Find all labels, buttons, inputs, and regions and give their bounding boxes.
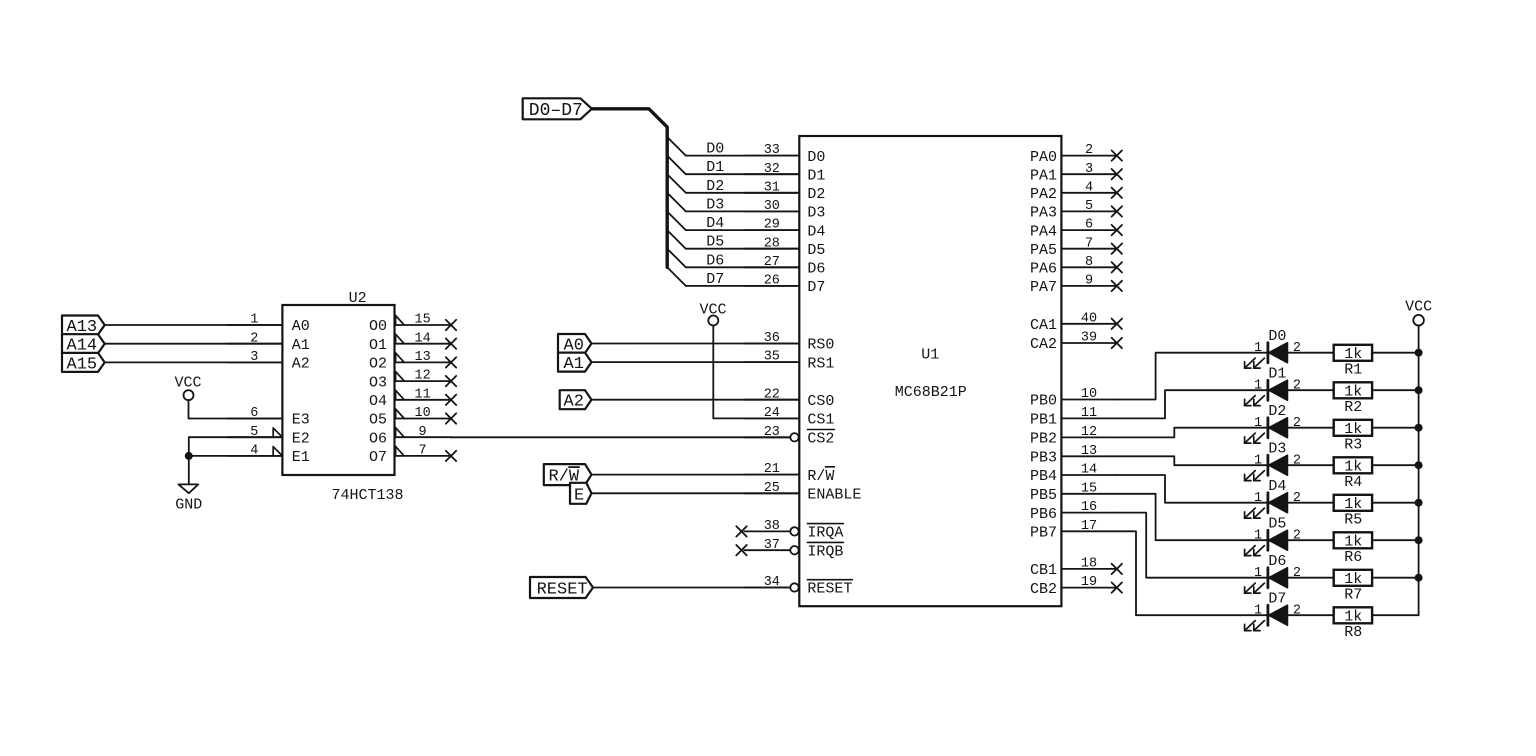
- U2 pin 12 (O3): [369, 369, 456, 392]
- svg-text:IRQA: IRQA: [807, 525, 843, 542]
- svg-text:1: 1: [1254, 528, 1262, 543]
- svg-text:13: 13: [1081, 444, 1097, 459]
- wire D2 with net label: [686, 178, 800, 195]
- svg-text:D3: D3: [1268, 441, 1286, 458]
- svg-text:O1: O1: [369, 337, 387, 354]
- global label A1: [558, 353, 592, 375]
- resistor R8 1k: [1288, 607, 1419, 641]
- svg-text:VCC: VCC: [1405, 299, 1432, 316]
- svg-text:O0: O0: [369, 318, 387, 335]
- wire D6 with net label: [686, 252, 800, 269]
- svg-text:37: 37: [764, 538, 780, 553]
- global label RESET: [530, 577, 593, 600]
- U2 pin 7 (O7): [369, 444, 456, 467]
- svg-text:9: 9: [419, 425, 427, 440]
- U1 pin 30 (D3): [744, 199, 825, 222]
- wire PB0 to LED D0: [1116, 353, 1268, 400]
- svg-text:D2: D2: [807, 186, 825, 203]
- U2 pin 11 (O4): [369, 387, 456, 410]
- junction VCC rail / R4: [1415, 461, 1423, 469]
- svg-text:E: E: [574, 486, 584, 505]
- wire D3 with net label: [686, 196, 800, 213]
- svg-text:PA0: PA0: [1030, 149, 1057, 166]
- svg-text:12: 12: [1081, 425, 1097, 440]
- svg-text:PA3: PA3: [1030, 205, 1057, 222]
- svg-text:RS1: RS1: [807, 355, 834, 372]
- svg-text:PB2: PB2: [1030, 431, 1057, 448]
- U1 pin 40 (CA1): [1030, 311, 1122, 334]
- U1 pin 15 (PB5): [1030, 481, 1116, 504]
- U1 pin 32 (D1): [744, 162, 825, 185]
- U1 pin 5 (PA3): [1030, 199, 1122, 222]
- svg-text:U2: U2: [349, 290, 367, 307]
- global label A14: [62, 334, 105, 356]
- svg-text:4: 4: [1085, 180, 1093, 195]
- bus D0-D7: [592, 109, 667, 267]
- svg-text:PA6: PA6: [1030, 261, 1057, 278]
- svg-text:U1: U1: [921, 347, 939, 364]
- wire R/W to U1 pin 21: [592, 474, 800, 476]
- wire A15 to U2 A2: [105, 361, 283, 363]
- svg-text:13: 13: [414, 350, 430, 365]
- svg-text:RESET: RESET: [537, 581, 588, 600]
- svg-text:PB3: PB3: [1030, 450, 1057, 467]
- wire PB6 to LED D6: [1116, 513, 1268, 578]
- U1 pin 21 (R/W): [744, 462, 834, 485]
- U1 pin 13 (PB3): [1030, 444, 1116, 467]
- U2 pin 4 (E1): [227, 444, 309, 467]
- svg-text:D5: D5: [807, 242, 825, 259]
- U1 value MC68B21P: [895, 384, 967, 401]
- VCC rail wire: [1418, 326, 1420, 616]
- svg-text:D1: D1: [1268, 366, 1286, 383]
- svg-text:1: 1: [1254, 453, 1262, 468]
- U1 pin 39 (CA2): [1030, 331, 1122, 354]
- U2 pin 14 (O1): [369, 331, 456, 354]
- svg-text:A0: A0: [292, 318, 310, 335]
- U2 pin 2 (A1): [227, 331, 309, 354]
- svg-text:16: 16: [1081, 500, 1097, 515]
- svg-text:14: 14: [414, 331, 430, 346]
- wire U2 O6 to U1 CS2: [451, 436, 790, 438]
- U1 pin 29 (D4): [744, 218, 825, 241]
- wire A14 to U2 A1: [105, 343, 283, 345]
- svg-text:D2: D2: [706, 178, 724, 195]
- svg-text:2: 2: [1293, 603, 1301, 618]
- svg-text:1: 1: [1254, 341, 1262, 356]
- svg-text:D6: D6: [1268, 553, 1286, 570]
- U2 pin 3 (A2): [227, 350, 309, 373]
- svg-text:D6: D6: [706, 252, 724, 269]
- wire PB1 to LED D1: [1116, 390, 1268, 418]
- U1 pin 24 (CS1): [744, 406, 834, 429]
- wire D4 with net label: [686, 215, 800, 232]
- svg-text:A1: A1: [564, 355, 584, 374]
- svg-text:2: 2: [1293, 528, 1301, 543]
- junction VCC rail / R2: [1415, 386, 1423, 394]
- LED D7: [1245, 591, 1301, 631]
- svg-text:15: 15: [1081, 481, 1097, 496]
- wire VCC to U1 CS1: [713, 326, 799, 419]
- U1 pin 12 (PB2): [1030, 425, 1116, 448]
- svg-text:9: 9: [1085, 274, 1093, 289]
- svg-text:7: 7: [1085, 236, 1093, 251]
- power symbol VCC (U2): [174, 375, 201, 401]
- resistor R5 1k: [1288, 495, 1419, 529]
- U2 pin 6 (E3): [227, 406, 309, 429]
- wire PB5 to LED D5: [1116, 494, 1268, 540]
- svg-text:1: 1: [1254, 416, 1262, 431]
- resistor R6 1k: [1288, 532, 1419, 566]
- svg-text:MC68B21P: MC68B21P: [895, 384, 967, 401]
- wire GND to U2 E1: [189, 455, 283, 457]
- bus entry D5: [667, 230, 686, 249]
- svg-text:D1: D1: [706, 159, 724, 176]
- U1 pin 28 (D5): [744, 236, 825, 259]
- svg-text:CB2: CB2: [1030, 581, 1057, 598]
- svg-text:40: 40: [1081, 311, 1097, 326]
- svg-text:1: 1: [1254, 378, 1262, 393]
- junction VCC rail / R3: [1415, 424, 1423, 432]
- svg-text:CS2: CS2: [807, 431, 834, 448]
- U2 value 74HCT138: [331, 487, 403, 504]
- svg-text:2: 2: [1293, 566, 1301, 581]
- wire D1 with net label: [686, 159, 800, 176]
- resistor R1 1k: [1288, 345, 1419, 379]
- bus entry D7: [667, 267, 686, 286]
- svg-text:D5: D5: [1268, 516, 1286, 533]
- U1 pin 4 (PA2): [1030, 180, 1122, 203]
- svg-text:A15: A15: [67, 355, 98, 374]
- svg-text:R2: R2: [1344, 399, 1362, 416]
- U2 pin 15 (O0): [369, 313, 456, 336]
- U1 pin 25 (ENABLE): [744, 481, 861, 504]
- U1 pin 18 (CB1): [1030, 557, 1122, 580]
- LED D5: [1245, 516, 1301, 556]
- svg-text:2: 2: [1293, 341, 1301, 356]
- svg-text:E3: E3: [292, 412, 310, 429]
- U1 pin 6 (PA4): [1030, 218, 1122, 241]
- junction VCC rail / R6: [1415, 536, 1423, 544]
- U2 pin 9 (O6): [369, 425, 451, 448]
- U1 pin 8 (PA6): [1030, 255, 1122, 278]
- wire VCC to U2 E3: [189, 400, 283, 418]
- svg-text:VCC: VCC: [699, 302, 726, 319]
- wire PB2 to LED D2: [1116, 428, 1268, 438]
- wire GND to U2 E2: [189, 437, 283, 484]
- U1 pin 2 (PA0): [1030, 143, 1122, 166]
- wire D0 with net label: [686, 141, 800, 158]
- svg-text:10: 10: [1081, 387, 1097, 402]
- svg-text:IRQB: IRQB: [807, 543, 843, 560]
- svg-text:8: 8: [1085, 255, 1093, 270]
- wire A2 to U1 CS0: [592, 399, 800, 401]
- svg-text:38: 38: [764, 519, 780, 534]
- svg-text:1: 1: [1254, 566, 1262, 581]
- svg-text:PB5: PB5: [1030, 487, 1057, 504]
- U1 pin 37 (IRQB): [736, 538, 843, 561]
- svg-text:D7: D7: [807, 279, 825, 296]
- U1 pin 26 (D7): [744, 274, 825, 297]
- svg-text:D5: D5: [706, 234, 724, 251]
- resistor R2 1k: [1288, 382, 1419, 416]
- svg-text:D4: D4: [1268, 478, 1286, 495]
- global label R/W: [544, 464, 592, 487]
- svg-text:2: 2: [1085, 143, 1093, 158]
- global label A2: [560, 390, 592, 412]
- U1 pin 34 (RESET): [744, 575, 852, 598]
- svg-text:6: 6: [1085, 218, 1093, 233]
- svg-text:VCC: VCC: [174, 375, 201, 392]
- svg-text:PB1: PB1: [1030, 412, 1057, 429]
- svg-text:GND: GND: [175, 496, 202, 513]
- wire E to U1 ENABLE: [592, 492, 800, 494]
- svg-text:A2: A2: [564, 393, 584, 412]
- wire PB3 to LED D3: [1116, 456, 1268, 465]
- IC U2 74HCT138 body: [282, 305, 394, 475]
- svg-text:D7: D7: [1268, 591, 1286, 608]
- svg-text:O2: O2: [369, 356, 387, 373]
- U1 pin 27 (D6): [744, 255, 825, 278]
- svg-text:O3: O3: [369, 374, 387, 391]
- svg-text:CA1: CA1: [1030, 317, 1057, 334]
- svg-text:19: 19: [1081, 575, 1097, 590]
- svg-text:18: 18: [1081, 557, 1097, 572]
- svg-text:E2: E2: [292, 430, 310, 447]
- resistor R7 1k: [1288, 570, 1419, 604]
- junction VCC rail / R1: [1415, 349, 1423, 357]
- svg-text:5: 5: [1085, 199, 1093, 214]
- svg-text:2: 2: [1293, 453, 1301, 468]
- LED D3: [1245, 441, 1301, 481]
- svg-text:11: 11: [1081, 406, 1097, 421]
- svg-text:R5: R5: [1344, 511, 1362, 528]
- U1 reference designator: [921, 347, 939, 364]
- U1 pin 9 (PA7): [1030, 274, 1122, 297]
- wire D7 with net label: [686, 271, 800, 288]
- svg-text:PA1: PA1: [1030, 167, 1057, 184]
- svg-text:R/W: R/W: [807, 468, 834, 485]
- global label A15: [62, 353, 105, 375]
- svg-text:CS0: CS0: [807, 393, 834, 410]
- svg-text:39: 39: [1081, 331, 1097, 346]
- svg-text:PB7: PB7: [1030, 525, 1057, 542]
- U1 pin 14 (PB4): [1030, 463, 1116, 486]
- wire PB7 to LED D7: [1116, 531, 1268, 615]
- U2 pin 5 (E2): [227, 425, 309, 448]
- svg-text:D0: D0: [1268, 328, 1286, 345]
- svg-text:RS0: RS0: [807, 337, 834, 354]
- U1 pin 10 (PB0): [1030, 387, 1116, 410]
- svg-text:15: 15: [414, 313, 430, 328]
- wire PB4 to LED D4: [1116, 475, 1268, 503]
- svg-text:D7: D7: [706, 271, 724, 288]
- U1 pin 17 (PB7): [1030, 519, 1116, 542]
- svg-text:3: 3: [1085, 162, 1093, 177]
- svg-text:PA4: PA4: [1030, 223, 1057, 240]
- U1 pin 7 (PA5): [1030, 236, 1122, 259]
- svg-text:PA2: PA2: [1030, 186, 1057, 203]
- U1 pin 33 (D0): [744, 143, 825, 166]
- svg-text:A2: A2: [292, 356, 310, 373]
- svg-text:R4: R4: [1344, 474, 1362, 491]
- U1 pin 11 (PB1): [1030, 406, 1116, 429]
- svg-text:RESET: RESET: [807, 581, 852, 598]
- svg-text:O7: O7: [369, 449, 387, 466]
- svg-text:11: 11: [414, 387, 430, 402]
- svg-text:1: 1: [1254, 603, 1262, 618]
- bus entry D0: [667, 137, 686, 156]
- junction VCC rail / R7: [1415, 574, 1423, 582]
- bus entry D3: [667, 193, 686, 212]
- global label E: [570, 483, 592, 506]
- svg-text:E1: E1: [292, 449, 310, 466]
- U2 reference designator: [349, 290, 367, 307]
- svg-text:PB6: PB6: [1030, 506, 1057, 523]
- svg-text:PB0: PB0: [1030, 393, 1057, 410]
- wire A0 to U1 RS0: [592, 343, 800, 345]
- svg-text:D3: D3: [706, 196, 724, 213]
- U1 pin 38 (IRQA): [736, 519, 843, 542]
- LED D4: [1245, 478, 1301, 518]
- IC U1 MC68B21P body: [799, 136, 1061, 606]
- power symbol VCC (LED rail): [1405, 299, 1432, 326]
- svg-text:17: 17: [1081, 519, 1097, 534]
- svg-text:D4: D4: [706, 215, 724, 232]
- U1 pin 19 (CB2): [1030, 575, 1122, 598]
- svg-text:R8: R8: [1344, 624, 1362, 641]
- svg-text:1: 1: [1254, 491, 1262, 506]
- global label A13: [62, 316, 105, 338]
- svg-text:PA5: PA5: [1030, 242, 1057, 259]
- svg-text:R1: R1: [1344, 361, 1362, 378]
- svg-text:R6: R6: [1344, 549, 1362, 566]
- svg-text:PA7: PA7: [1030, 279, 1057, 296]
- junction at GND/E1: [185, 452, 193, 460]
- svg-text:2: 2: [1293, 491, 1301, 506]
- U2 pin 13 (O2): [369, 350, 456, 373]
- U2 pin 1 (A0): [227, 313, 309, 336]
- power symbol VCC (U1): [699, 302, 726, 326]
- svg-text:D6: D6: [807, 261, 825, 278]
- resistor R3 1k: [1288, 420, 1419, 454]
- svg-text:D2: D2: [1268, 403, 1286, 420]
- svg-text:ENABLE: ENABLE: [807, 487, 861, 504]
- bus label D0-D7: [523, 98, 592, 121]
- wire RESET to U1 pin 34: [593, 587, 790, 589]
- svg-text:D0: D0: [807, 149, 825, 166]
- svg-text:D3: D3: [807, 205, 825, 222]
- U1 pin 16 (PB6): [1030, 500, 1116, 523]
- bus entry D4: [667, 212, 686, 231]
- ground symbol GND: [175, 484, 202, 513]
- U1 pin 23 (CS2): [744, 425, 834, 448]
- svg-text:D4: D4: [807, 223, 825, 240]
- svg-text:2: 2: [1293, 378, 1301, 393]
- svg-text:12: 12: [414, 369, 430, 384]
- svg-text:CB1: CB1: [1030, 562, 1057, 579]
- svg-text:D0: D0: [706, 141, 724, 158]
- svg-text:7: 7: [419, 444, 427, 459]
- svg-text:2: 2: [1293, 416, 1301, 431]
- svg-text:10: 10: [414, 406, 430, 421]
- bus entry D1: [667, 156, 686, 175]
- wire A13 to U2 A0: [105, 324, 283, 326]
- LED D1: [1245, 366, 1301, 406]
- svg-text:O5: O5: [369, 412, 387, 429]
- svg-text:CS1: CS1: [807, 412, 834, 429]
- LED D6: [1245, 553, 1301, 593]
- svg-text:O6: O6: [369, 430, 387, 447]
- bus entry D6: [667, 249, 686, 268]
- svg-text:74HCT138: 74HCT138: [331, 487, 403, 504]
- bus entry D2: [667, 174, 686, 193]
- svg-text:D1: D1: [807, 167, 825, 184]
- wire A1 to U1 RS1: [592, 361, 800, 363]
- U1 pin 31 (D2): [744, 180, 825, 203]
- LED D0: [1245, 328, 1301, 368]
- U1 pin 3 (PA1): [1030, 162, 1122, 185]
- U1 pin 36 (RS0): [744, 331, 834, 354]
- svg-text:D0–D7: D0–D7: [529, 101, 583, 121]
- svg-text:A1: A1: [292, 337, 310, 354]
- wire D5 with net label: [686, 234, 800, 251]
- U2 pin 10 (O5): [369, 406, 456, 429]
- svg-text:R7: R7: [1344, 586, 1362, 603]
- U1 pin 22 (CS0): [744, 387, 834, 410]
- svg-text:R3: R3: [1344, 436, 1362, 453]
- junction VCC rail / R5: [1415, 499, 1423, 507]
- LED D2: [1245, 403, 1301, 443]
- svg-text:CA2: CA2: [1030, 336, 1057, 353]
- svg-text:14: 14: [1081, 463, 1097, 478]
- svg-text:PB4: PB4: [1030, 468, 1057, 485]
- resistor R4 1k: [1288, 457, 1419, 491]
- U1 pin 35 (RS1): [744, 350, 834, 373]
- global label A0: [558, 334, 592, 356]
- svg-text:O4: O4: [369, 393, 387, 410]
